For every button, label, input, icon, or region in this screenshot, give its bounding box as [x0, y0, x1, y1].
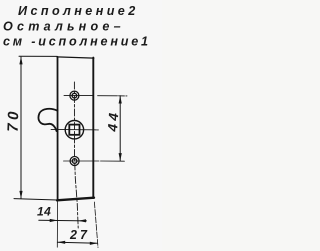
svg-text:70: 70 [5, 108, 23, 132]
dim 14 arrow at centerline [78, 219, 86, 222]
svg-text:Исполнение2: Исполнение2 [18, 4, 139, 18]
plate outline: left edge [57, 57, 59, 200]
dim 44 arrow up [119, 96, 122, 104]
svg-text:см -исполнение1: см -исполнение1 [3, 35, 151, 49]
dim 70 arrow up [19, 57, 22, 65]
svg-text:44: 44 [105, 109, 122, 133]
top hole centerline (horizontal) [64, 95, 127, 97]
hook profile on left edge [39, 109, 58, 131]
plate outline: top edge [57, 57, 94, 58]
bottom hole centerline (horizontal) [64, 160, 125, 162]
dim 44 dimension line [119, 96, 121, 161]
dim 14 dimension line [39, 219, 87, 222]
dim 27 arrow right [90, 242, 98, 245]
dim 44 arrow down [119, 153, 122, 161]
svg-text:27: 27 [69, 228, 90, 242]
svg-text:14: 14 [37, 205, 51, 219]
dim 27 dimension line [57, 242, 97, 243]
top hole inner circle [72, 93, 77, 98]
plate outline: bottom edge [57, 198, 94, 201]
square hole [69, 125, 79, 135]
square hole centerline (horizontal) [51, 128, 98, 131]
svg-text:Остальное–: Остальное– [3, 20, 125, 34]
dim 70 arrow down [19, 191, 22, 199]
right extension line below plate [94, 202, 98, 248]
square hole circumscribed circle [65, 121, 83, 139]
bottom hole outer circle [70, 157, 79, 166]
bottom hole inner circle [72, 159, 77, 164]
dim 70 bottom extension line [14, 199, 57, 200]
dim 14 arrow at plate edge [50, 219, 58, 222]
plate outline: right edge [92, 58, 94, 198]
top hole outer circle [70, 91, 79, 100]
left extension line below plate [56, 200, 58, 247]
dim 70 dimension line [20, 57, 22, 198]
vertical centerline (axis) [74, 82, 78, 228]
dim 27 arrow left [57, 241, 65, 244]
dim 70 top extension line [19, 55, 57, 57]
